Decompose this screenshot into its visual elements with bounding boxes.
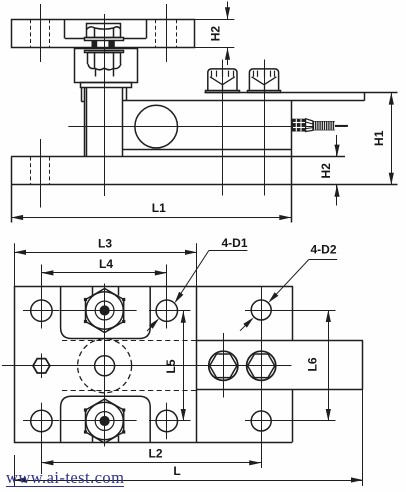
hole crosshair v lower-right (166, 403, 168, 440)
column step right (126, 88, 128, 101)
hole centerline left (40, 4, 42, 62)
hole crosshair h lower-right (149, 420, 191, 422)
right plate bolt hex B (248, 354, 275, 378)
4-D1 underline (209, 250, 248, 252)
svg-text:L: L (173, 464, 180, 478)
column right edge / load cell left edge (122, 88, 124, 157)
right upper hole crosshair + L6 ext (245, 310, 336, 312)
L4 dimension (41, 272, 166, 274)
load cell beam bottom edge (122, 149, 291, 151)
cap screw body S1 (208, 69, 237, 90)
hidden edge lower (62, 390, 197, 392)
cap screw 1 axis (222, 60, 224, 196)
top spacer bar right step (364, 93, 366, 101)
right plate right edge extension down (362, 389, 364, 486)
right lower hole (251, 411, 271, 431)
base hidden hole line (30, 157, 32, 185)
svg-text:L3: L3 (98, 236, 112, 250)
upper slot pocket (61, 286, 151, 338)
L3 ext left (14, 243, 16, 286)
H2 bottom dim upper (336, 135, 338, 157)
bolt washer circle top (86, 292, 123, 329)
bolt crosshair horizontal bottom (60, 420, 137, 422)
mount hole upper-right (156, 300, 177, 321)
cap screw washer S1 (206, 91, 240, 93)
thread section dark right (108, 40, 114, 47)
plate pocket floor right (124, 38, 147, 40)
connector nut block (292, 119, 306, 132)
cap screw knurl S2 (253, 71, 255, 77)
cap screw knurl S1 (228, 71, 230, 77)
washer under bolt head (85, 38, 124, 41)
nut chamfer arc left (88, 64, 95, 69)
upper notch left (92, 286, 94, 295)
svg-text:H1: H1 (372, 130, 386, 146)
center pin hole (95, 356, 115, 376)
H2 dim line lower (227, 48, 229, 65)
hex nut facet right (113, 52, 115, 68)
cap screw body S2 (249, 69, 278, 90)
hex nut facet left (94, 52, 96, 68)
base hidden hole line2 (49, 157, 51, 185)
spacer washer under bracket (81, 83, 132, 88)
cable line (335, 125, 348, 127)
base hole centerline (40, 139, 42, 208)
load cell through-hole (135, 105, 178, 148)
connector threaded stud (313, 121, 335, 130)
right column vertical centerline (261, 286, 263, 468)
svg-text:H2: H2 (208, 26, 222, 42)
connector nut slot line2 (293, 127, 305, 129)
hole crosshair v upper-right (166, 265, 168, 329)
plate pocket left wall (64, 19, 66, 38)
4-D2 underline (309, 259, 338, 261)
taper detail line2 (306, 128, 313, 129)
svg-text:L1: L1 (152, 201, 166, 215)
beam horizontal centerline (68, 126, 348, 128)
cap screw knurl S2 (264, 71, 266, 77)
cap screw knurl S1 (233, 71, 235, 77)
bolt shank stub right (113, 69, 115, 77)
hex screw centerline (41, 354, 43, 379)
main base plate (plan view) (15, 287, 197, 443)
lower tab bottom edge (197, 442, 292, 444)
right plate bolt outer A (209, 351, 238, 380)
base plate left edge + L1 extension (11, 157, 13, 223)
cap screw knurl S2 (257, 71, 259, 77)
hidden circle center (78, 339, 132, 393)
hole crosshair h upper-right (149, 310, 191, 312)
cap screw chamfer V right S2 (264, 77, 276, 85)
load cell beam top edge (122, 100, 364, 102)
4-D1 leader lower (147, 320, 158, 331)
hex head facet right (113, 28, 115, 37)
connector nut slot line (293, 122, 305, 124)
bolt crosshair horizontal top (60, 310, 137, 312)
hex nut outline bottom (86, 399, 124, 443)
hex nut right side (120, 52, 122, 64)
H2 dim line upper (227, 2, 229, 20)
bolt inner ring bottom (95, 412, 114, 431)
L ext left (14, 455, 16, 486)
mount hole lower-right (156, 410, 177, 431)
hidden hole line (49, 19, 51, 48)
nut chamfer arc mid-right (104, 68, 113, 70)
hex nut left side (87, 52, 89, 64)
hex head chamfer arc right (114, 27, 121, 29)
top spacer bar top edge + H1 extension (205, 92, 398, 94)
bolt inner ring top (95, 301, 114, 320)
H2 extension bottom (195, 47, 234, 49)
hole crosshair v lower-left (41, 403, 43, 474)
cap screw V stem S2 (264, 85, 266, 90)
L dimension (14, 480, 363, 482)
plate pocket right wall (146, 19, 148, 38)
hex head chamfer arc left (87, 27, 95, 29)
lower tab right edge (292, 389, 294, 442)
cap screw knurl S1 (211, 71, 213, 77)
L1 dimension (11, 217, 291, 219)
right plate right edge (362, 340, 364, 389)
hex screw end view (33, 359, 50, 373)
H1 dimension (391, 93, 393, 185)
mount hole upper-left (31, 300, 52, 321)
hole crosshair h lower-left (23, 420, 60, 422)
upper tab top edge (197, 286, 293, 288)
L5 dimension (183, 311, 185, 421)
mount hole lower-left (31, 410, 52, 431)
H2 bottom dim lower (336, 185, 338, 206)
main bolt axis centerline (104, 14, 106, 196)
column left edge outer (84, 88, 86, 157)
hex bolt head M1 (87, 24, 121, 38)
connector taper (306, 119, 313, 132)
hidden hole line (30, 19, 32, 48)
nut chamfer arc mid-left (95, 68, 104, 70)
hole crosshair h upper-left (23, 310, 60, 312)
hole crosshair v upper-left (41, 265, 43, 329)
cap screw V stem S1 (222, 85, 224, 90)
thread section dark left (92, 40, 98, 47)
svg-text:L4: L4 (99, 257, 113, 271)
top mounting plate (side view) (12, 20, 195, 48)
hex head chamfer arc mid (95, 28, 114, 29)
upper load bracket (75, 49, 138, 83)
right plate bottom edge (197, 389, 363, 391)
svg-text:L2: L2 (148, 446, 162, 460)
cap screw knurl S1 (222, 71, 224, 77)
right plate top edge (197, 340, 363, 342)
lower slot pocket (61, 396, 151, 442)
plate horizontal centerline (2, 365, 292, 367)
cap screw 2 axis (264, 60, 266, 196)
4-D1 leader (176, 250, 209, 301)
washer under plate (85, 51, 124, 53)
cap screw chamfer V left S2 (252, 77, 264, 85)
column step left (81, 88, 83, 102)
hex nut top edge (88, 52, 121, 54)
L6 dimension (328, 310, 330, 421)
right plate bolt hex A (210, 354, 237, 378)
H2 extension top (195, 19, 234, 21)
hidden hole line (176, 19, 178, 48)
L3 dimension (14, 252, 197, 254)
lower notch right (118, 436, 120, 442)
right upper hole (251, 300, 271, 320)
taper detail line (306, 122, 313, 124)
bolt center bottom (100, 416, 109, 425)
svg-text:4-D2: 4-D2 (310, 242, 336, 256)
svg-text:H2: H2 (319, 163, 333, 179)
svg-text:L5: L5 (164, 359, 178, 373)
right bolt A vertical centerline (223, 333, 225, 398)
hole centerline right (166, 4, 168, 62)
cap screw chamfer V right S1 (222, 77, 234, 85)
right lower hole crosshair + L6 ext (245, 420, 336, 422)
hidden hole line (155, 19, 157, 48)
4-D2 leader (270, 260, 309, 302)
4-D2 leader lower (240, 319, 252, 331)
upper notch right (118, 286, 120, 295)
upper tab right edge (292, 286, 294, 340)
right plate bolt outer B (247, 351, 276, 380)
watermark (6, 469, 124, 487)
column left edge inner (86, 88, 88, 157)
column step ledge left (81, 101, 84, 103)
cap screw knurl S2 (274, 71, 276, 77)
L3 ext right (196, 243, 198, 286)
hex head facet left (94, 28, 96, 37)
cap screw knurl S2 (270, 71, 272, 77)
plate vertical centerline (104, 284, 106, 447)
hidden edge upper (62, 340, 197, 342)
cap screw washer S2 (248, 91, 281, 93)
cap screw knurl S1 (216, 71, 218, 77)
bolt shank stub left (95, 69, 97, 77)
base plate top edge + H2 extension (11, 156, 345, 158)
bolt washer circle bottom (86, 402, 123, 439)
cap screw chamfer V left S1 (210, 77, 222, 85)
nut chamfer arc right (114, 64, 122, 69)
bolt center top (100, 306, 109, 315)
plate pocket floor left (65, 38, 85, 40)
base plate bottom edge + H1/H2 extension (11, 184, 397, 186)
load cell right edge + L1 extension (291, 101, 293, 223)
svg-text:4-D1: 4-D1 (221, 236, 247, 250)
hex nut outline top (86, 289, 124, 333)
L2 dimension (41, 462, 261, 464)
lower notch left (92, 436, 94, 442)
svg-text:L6: L6 (306, 357, 320, 371)
